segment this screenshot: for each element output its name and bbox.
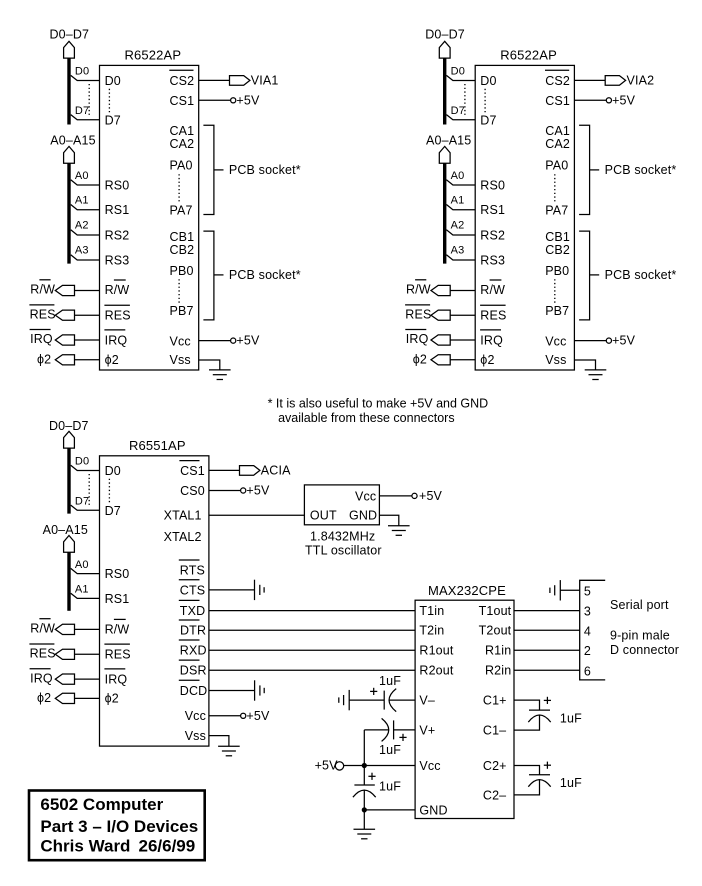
svg-text:V+: V+ bbox=[419, 723, 435, 737]
wire C2 to +5V node bbox=[364, 729, 388, 731]
svg-text:+5V: +5V bbox=[246, 709, 270, 723]
svg-text:RXD: RXD bbox=[180, 644, 207, 658]
wire A0 branch to VIA1 pin RS0 bbox=[71, 180, 100, 185]
svg-text:A0: A0 bbox=[75, 170, 89, 182]
+5V supply symbol at Vcc (VIA1) bbox=[231, 338, 236, 343]
svg-text:9-pin male: 9-pin male bbox=[610, 629, 670, 643]
wire RES tag to ACIA bbox=[75, 653, 100, 655]
svg-text:+5V: +5V bbox=[236, 334, 260, 348]
pin labels left column (ACIA) bbox=[104, 464, 130, 706]
svg-text:RS0: RS0 bbox=[105, 567, 130, 581]
bus arrow A0-A15 (VIA2) bbox=[439, 146, 450, 163]
input port IRQ (VIA2) bbox=[431, 335, 450, 345]
wire DCD to signal ground bbox=[209, 690, 255, 692]
svg-text:R1out: R1out bbox=[419, 644, 453, 658]
dotted ellipsis D1..D6 branches (VIA2) bbox=[464, 84, 466, 117]
svg-text:ACIA: ACIA bbox=[261, 464, 291, 478]
svg-text:V–: V– bbox=[419, 694, 435, 708]
capacitor C4 1uF polarized (C1+ to C1-) bbox=[529, 709, 550, 711]
wire +5V to MAX232 Vcc bbox=[344, 765, 415, 767]
svg-text:R/W: R/W bbox=[105, 623, 130, 637]
wire oscillator Vcc to +5V bbox=[379, 495, 412, 497]
svg-text:DSR: DSR bbox=[180, 664, 207, 678]
svg-text:R/W: R/W bbox=[480, 283, 505, 297]
+5V supply symbol at CS0 (ACIA) bbox=[241, 488, 246, 493]
svg-text:D0: D0 bbox=[105, 464, 121, 478]
signal ground at CTS bbox=[254, 580, 256, 600]
svg-text:RES: RES bbox=[480, 309, 506, 323]
wire A1 branch to ACIA pin RS1 bbox=[71, 593, 100, 598]
wire IRQ tag to VIA2 bbox=[450, 339, 475, 341]
svg-text:DTR: DTR bbox=[180, 624, 206, 638]
wire RXD to MAX232 R1out bbox=[209, 649, 415, 651]
signal ground at C1 bbox=[348, 690, 350, 710]
wire A3 branch to VIA1 pin RS3 bbox=[71, 255, 100, 260]
pin labels right column (VIA1) bbox=[169, 70, 194, 367]
svg-text:IRQ: IRQ bbox=[30, 332, 53, 346]
capacitor C2 1uF polarized (V+ to +5V) bbox=[393, 720, 395, 739]
wire D7 branch to VIA2 pin D7 bbox=[446, 115, 475, 120]
svg-text:+5V: +5V bbox=[315, 759, 339, 773]
svg-text:RS1: RS1 bbox=[105, 203, 130, 217]
svg-text:R2out: R2out bbox=[419, 664, 453, 678]
svg-text:D0: D0 bbox=[480, 74, 496, 88]
wire oscillator GND to ground bbox=[379, 515, 398, 526]
data bus D0-D7 thick wire (VIA1) bbox=[67, 58, 70, 124]
+5V supply symbol at oscillator bbox=[412, 493, 417, 498]
bracket PCB socket CB1-PB7 (VIA1) bbox=[203, 231, 214, 320]
svg-text:A0–A15: A0–A15 bbox=[50, 133, 95, 147]
data bus D0-D7 thick wire (VIA2) bbox=[443, 58, 446, 124]
svg-text:CS0: CS0 bbox=[180, 484, 205, 498]
svg-text:PA0: PA0 bbox=[545, 159, 568, 173]
dotted ellipsis D0..D7 inside VIA2 bbox=[484, 89, 486, 114]
wire IRQ tag to VIA1 bbox=[75, 339, 100, 341]
wire phi2 tag to ACIA bbox=[75, 697, 100, 699]
svg-text:RTS: RTS bbox=[180, 563, 205, 577]
wire GND to ground node bbox=[364, 809, 415, 811]
output port VIA1 bbox=[230, 76, 250, 86]
svg-text:PA0: PA0 bbox=[170, 159, 193, 173]
svg-text:D0: D0 bbox=[75, 456, 89, 468]
svg-text:R6522AP: R6522AP bbox=[125, 48, 182, 63]
pin labels left column (VIA1) bbox=[104, 74, 130, 367]
svg-text:3: 3 bbox=[584, 604, 591, 618]
wire phi2 tag to VIA2 bbox=[450, 359, 475, 361]
capacitor C1 1uF polarized (V- to ground) bbox=[383, 691, 385, 710]
svg-text:T1out: T1out bbox=[479, 604, 512, 618]
svg-text:MAX232CPE: MAX232CPE bbox=[428, 583, 506, 598]
polarity + of C2 bbox=[399, 736, 406, 738]
wire CS2 to VIA2 tag bbox=[574, 79, 605, 81]
svg-text:1uF: 1uF bbox=[379, 743, 401, 757]
svg-text:available from these connector: available from these connectors bbox=[278, 411, 454, 425]
wire DSR to MAX232 R2out bbox=[209, 669, 415, 671]
svg-text:A1: A1 bbox=[75, 584, 89, 596]
svg-text:CTS: CTS bbox=[180, 583, 205, 597]
wire CTS to signal ground bbox=[209, 589, 255, 591]
svg-text:ϕ2: ϕ2 bbox=[37, 691, 51, 705]
dotted ellipsis PA0..PA7 inside VIA1 bbox=[178, 174, 180, 202]
ground symbol at Vss (VIA2) bbox=[585, 369, 607, 371]
svg-text:1uF: 1uF bbox=[560, 776, 582, 790]
svg-text:PCB socket*: PCB socket* bbox=[605, 268, 677, 282]
polarity + of C5 bbox=[544, 764, 551, 766]
wire A0 branch to VIA2 pin RS0 bbox=[446, 180, 475, 185]
input port R/W (ACIA) bbox=[55, 624, 74, 634]
svg-text:ϕ2: ϕ2 bbox=[480, 353, 494, 367]
chip VIA1 R6522AP body bbox=[100, 65, 199, 370]
dotted ellipsis D1..D6 branches (ACIA) bbox=[88, 474, 90, 507]
dotted ellipsis PB0..PB7 inside VIA2 bbox=[554, 279, 556, 303]
polarity + of C4 bbox=[544, 699, 551, 701]
svg-text:CB1: CB1 bbox=[545, 230, 570, 244]
svg-text:GND: GND bbox=[349, 509, 377, 523]
svg-text:CB2: CB2 bbox=[170, 243, 195, 257]
bus arrow A0-A15 (VIA1) bbox=[64, 146, 75, 163]
+5V supply symbol at CS1 (VIA2) bbox=[606, 98, 611, 103]
ground symbol at MAX232 GND bbox=[354, 828, 376, 830]
svg-text:Vcc: Vcc bbox=[185, 709, 206, 723]
svg-text:PA7: PA7 bbox=[545, 203, 568, 217]
svg-text:C2–: C2– bbox=[483, 788, 506, 802]
svg-text:6: 6 bbox=[584, 664, 591, 678]
capacitor C3 1uF polarized (+5V to GND) bbox=[363, 766, 365, 786]
polarity + of C3 bbox=[368, 775, 375, 777]
svg-text:C1+: C1+ bbox=[483, 694, 507, 708]
svg-text:CS1: CS1 bbox=[170, 94, 195, 108]
+5V supply symbol at Vcc (VIA2) bbox=[606, 338, 611, 343]
svg-text:A2: A2 bbox=[75, 220, 89, 232]
wire CS1 to +5V (VIA2) bbox=[574, 99, 606, 101]
svg-text:Vcc: Vcc bbox=[419, 759, 440, 773]
wire D7 branch to ACIA pin D7 bbox=[71, 505, 100, 510]
wire C1 to signal ground bbox=[349, 699, 384, 701]
signal ground at serial pin 5 bbox=[559, 580, 561, 600]
wire A1 branch to VIA2 pin RS1 bbox=[446, 205, 475, 210]
output port VIA2 bbox=[605, 76, 625, 86]
dotted ellipsis PB0..PB7 inside VIA1 bbox=[178, 279, 180, 303]
svg-text:D7: D7 bbox=[451, 105, 465, 117]
wire Vcc to +5V (VIA1) bbox=[199, 340, 231, 342]
svg-text:R/W: R/W bbox=[406, 283, 431, 297]
svg-text:RS1: RS1 bbox=[105, 592, 130, 606]
svg-text:R/W: R/W bbox=[105, 283, 130, 297]
svg-text:A0: A0 bbox=[451, 170, 465, 182]
svg-text:1uF: 1uF bbox=[379, 780, 401, 794]
svg-text:1.8432MHz: 1.8432MHz bbox=[310, 529, 375, 543]
dotted ellipsis D1..D6 branches (VIA1) bbox=[88, 84, 90, 117]
wire D0 branch to ACIA pin D0 bbox=[71, 465, 100, 470]
input port RES (VIA2) bbox=[431, 310, 450, 320]
wire Vcc to +5V (VIA2) bbox=[574, 340, 606, 342]
svg-text:CS1: CS1 bbox=[545, 94, 570, 108]
svg-text:RS1: RS1 bbox=[480, 203, 505, 217]
bracket PCB socket CB1-PB7 (VIA2) bbox=[579, 231, 590, 320]
svg-text:Vcc: Vcc bbox=[545, 334, 566, 348]
svg-text:C1–: C1– bbox=[483, 723, 506, 737]
+5V supply symbol at Vcc (ACIA) bbox=[241, 713, 246, 718]
svg-text:ϕ2: ϕ2 bbox=[37, 352, 51, 366]
svg-text:CS2: CS2 bbox=[170, 74, 195, 88]
svg-text:C2+: C2+ bbox=[483, 759, 507, 773]
input port RES (VIA1) bbox=[55, 310, 74, 320]
svg-text:T2out: T2out bbox=[479, 624, 512, 638]
svg-text:XTAL2: XTAL2 bbox=[164, 530, 202, 544]
input port RES (ACIA) bbox=[55, 649, 74, 659]
svg-text:RES: RES bbox=[30, 307, 56, 321]
wire Vss to ground (VIA1) bbox=[199, 360, 220, 370]
svg-text:RES: RES bbox=[30, 647, 56, 661]
svg-text:A3: A3 bbox=[75, 245, 89, 257]
chip ACIA R6551AP body bbox=[100, 456, 209, 746]
svg-text:CA2: CA2 bbox=[545, 137, 570, 151]
svg-text:Vcc: Vcc bbox=[355, 490, 376, 504]
svg-text:RS2: RS2 bbox=[480, 229, 505, 243]
svg-text:+5V: +5V bbox=[246, 484, 270, 498]
dotted ellipsis D0..D7 inside ACIA bbox=[108, 479, 110, 504]
wire TXD to MAX232 T1in bbox=[209, 610, 415, 612]
svg-text:D7: D7 bbox=[75, 105, 89, 117]
svg-text:PCB socket*: PCB socket* bbox=[229, 268, 301, 282]
dotted ellipsis D0..D7 inside VIA1 bbox=[108, 89, 110, 114]
wire A3 branch to VIA2 pin RS3 bbox=[446, 255, 475, 260]
wire phi2 tag to VIA1 bbox=[75, 359, 100, 361]
pin labels right column (MAX232) bbox=[479, 604, 512, 802]
wire A2 branch to VIA2 pin RS2 bbox=[446, 230, 475, 235]
svg-text:RS2: RS2 bbox=[105, 229, 130, 243]
svg-text:+5V: +5V bbox=[612, 334, 636, 348]
data bus D0-D7 thick wire (ACIA) bbox=[67, 448, 70, 513]
output port ACIA bbox=[240, 466, 260, 476]
svg-text:CS1: CS1 bbox=[180, 464, 205, 478]
svg-text:CA1: CA1 bbox=[170, 124, 195, 138]
wire V- to capacitor C1 bbox=[389, 699, 415, 701]
svg-text:4: 4 bbox=[584, 624, 591, 638]
svg-text:26/6/99: 26/6/99 bbox=[139, 837, 196, 856]
wire C1+ / C1- to capacitor C4 bbox=[514, 700, 540, 710]
svg-text:Vss: Vss bbox=[545, 353, 566, 367]
ground symbol at Vss (ACIA) bbox=[218, 745, 240, 747]
input port phi2 (VIA2) bbox=[431, 355, 450, 365]
input port R/W (VIA1) bbox=[55, 285, 74, 295]
bus arrow D0-D7 (ACIA) bbox=[64, 431, 75, 448]
wire D7 branch to VIA1 pin D7 bbox=[71, 115, 100, 120]
svg-text:PB0: PB0 bbox=[545, 264, 569, 278]
svg-text:ϕ2: ϕ2 bbox=[105, 692, 119, 706]
capacitor C5 1uF polarized (C2+ to C2-) bbox=[529, 774, 550, 776]
wire Vss to ground (VIA2) bbox=[574, 360, 595, 370]
bus arrow A0-A15 (ACIA) bbox=[64, 536, 75, 553]
svg-text:D0–D7: D0–D7 bbox=[425, 27, 465, 41]
svg-text:RS0: RS0 bbox=[105, 179, 130, 193]
wire RES tag to VIA1 bbox=[75, 314, 100, 316]
pin labels left column (MAX232) bbox=[419, 604, 453, 817]
svg-text:T2in: T2in bbox=[419, 624, 444, 638]
wire RES tag to VIA2 bbox=[450, 314, 475, 316]
svg-text:PB0: PB0 bbox=[170, 264, 194, 278]
svg-text:+5V: +5V bbox=[236, 93, 260, 107]
svg-text:D7: D7 bbox=[105, 504, 121, 518]
svg-text:IRQ: IRQ bbox=[30, 671, 53, 685]
wire CS1 to ACIA tag bbox=[209, 469, 240, 471]
address bus A0-A15 thick wire (VIA1) bbox=[67, 163, 70, 263]
junction GND node bbox=[362, 807, 367, 812]
signal ground at DCD bbox=[254, 680, 256, 700]
svg-text:RES: RES bbox=[105, 309, 131, 323]
wire R/W tag to ACIA bbox=[75, 628, 100, 630]
svg-text:XTAL1: XTAL1 bbox=[164, 509, 202, 523]
svg-text:IRQ: IRQ bbox=[480, 333, 503, 347]
svg-text:PCB socket*: PCB socket* bbox=[605, 163, 677, 177]
svg-text:PB7: PB7 bbox=[545, 304, 569, 318]
svg-text:IRQ: IRQ bbox=[105, 333, 128, 347]
svg-text:CB2: CB2 bbox=[545, 243, 570, 257]
input port phi2 (ACIA) bbox=[55, 693, 74, 703]
wire D0 branch to VIA2 pin D0 bbox=[446, 75, 475, 80]
svg-text:D7: D7 bbox=[105, 113, 121, 127]
svg-text:RES: RES bbox=[105, 648, 131, 662]
svg-text:R2in: R2in bbox=[485, 664, 511, 678]
wire Vcc to +5V (ACIA) bbox=[209, 715, 241, 717]
svg-text:5: 5 bbox=[584, 585, 591, 599]
svg-text:IRQ: IRQ bbox=[105, 672, 128, 686]
svg-text:DCD: DCD bbox=[180, 684, 208, 698]
svg-text:IRQ: IRQ bbox=[406, 332, 429, 346]
svg-text:Vss: Vss bbox=[185, 729, 206, 743]
svg-text:CB1: CB1 bbox=[170, 230, 195, 244]
wire V+ to capacitor C2 bbox=[394, 729, 416, 731]
wire CS2 to VIA1 tag bbox=[199, 79, 230, 81]
bus arrow D0-D7 (VIA1) bbox=[64, 41, 75, 58]
+5V supply symbol at CS1 (VIA1) bbox=[231, 98, 236, 103]
wire A1 branch to VIA1 pin RS1 bbox=[71, 205, 100, 210]
svg-text:RES: RES bbox=[405, 307, 431, 321]
svg-text:PCB socket*: PCB socket* bbox=[229, 163, 301, 177]
wire D0 branch to VIA1 pin D0 bbox=[71, 75, 100, 80]
svg-text:A0: A0 bbox=[75, 559, 89, 571]
wire CS1 to +5V (VIA1) bbox=[199, 99, 231, 101]
serial connector J1 bracket bbox=[580, 580, 606, 680]
wire A2 branch to VIA1 pin RS2 bbox=[71, 230, 100, 235]
svg-text:GND: GND bbox=[419, 803, 447, 817]
svg-text:RS3: RS3 bbox=[105, 253, 130, 267]
wire R/W tag to VIA2 bbox=[450, 290, 475, 292]
wire A0 branch to ACIA pin RS0 bbox=[71, 568, 100, 573]
svg-text:A1: A1 bbox=[75, 194, 89, 206]
wire R2in to serial pin 6 bbox=[514, 669, 580, 671]
svg-text:D0: D0 bbox=[75, 66, 89, 78]
svg-text:Part 3 – I/O Devices: Part 3 – I/O Devices bbox=[40, 817, 198, 836]
svg-text:TXD: TXD bbox=[180, 604, 205, 618]
ground symbol at oscillator bbox=[388, 525, 410, 527]
oscillator X1 body bbox=[304, 485, 379, 525]
svg-text:A1: A1 bbox=[451, 194, 465, 206]
svg-text:TTL oscillator: TTL oscillator bbox=[305, 543, 382, 557]
svg-text:T1in: T1in bbox=[419, 604, 444, 618]
svg-text:PB7: PB7 bbox=[170, 304, 194, 318]
wire R1in to serial pin 2 bbox=[514, 649, 580, 651]
wire IRQ tag to ACIA bbox=[75, 678, 100, 680]
svg-text:CS2: CS2 bbox=[545, 74, 570, 88]
svg-text:R/W: R/W bbox=[30, 622, 55, 636]
svg-text:1uF: 1uF bbox=[379, 674, 401, 688]
svg-text:R1in: R1in bbox=[485, 644, 511, 658]
oscillator pin labels bbox=[310, 490, 377, 523]
svg-text:R/W: R/W bbox=[30, 283, 55, 297]
svg-text:A2: A2 bbox=[451, 220, 465, 232]
+5V terminal circle bbox=[335, 762, 343, 770]
wire ground node down bbox=[363, 810, 365, 829]
title box frame bbox=[29, 791, 205, 861]
svg-text:Chris Ward: Chris Ward bbox=[40, 837, 130, 856]
svg-text:CA1: CA1 bbox=[545, 124, 570, 138]
svg-text:Vcc: Vcc bbox=[170, 334, 191, 348]
wire C2+ / C2- to capacitor C5 bbox=[514, 766, 540, 775]
svg-text:VIA1: VIA1 bbox=[251, 74, 279, 88]
svg-text:+5V: +5V bbox=[419, 489, 443, 503]
wire T1out to serial pin 3 bbox=[514, 610, 580, 612]
ground symbol at Vss (VIA1) bbox=[209, 369, 231, 371]
wire CS0 to +5V (ACIA) bbox=[209, 490, 241, 492]
wire Vss to ground (ACIA) bbox=[209, 736, 229, 747]
svg-text:PA7: PA7 bbox=[170, 203, 193, 217]
svg-text:D0: D0 bbox=[105, 74, 121, 88]
svg-text:A0–A15: A0–A15 bbox=[43, 523, 88, 537]
wire DTR to MAX232 T2in bbox=[209, 629, 415, 631]
svg-text:Vss: Vss bbox=[170, 353, 191, 367]
bracket PCB socket CA1-PA7 (VIA2) bbox=[579, 125, 590, 214]
address bus A0-A15 thick wire (ACIA) bbox=[67, 552, 70, 611]
svg-text:OUT: OUT bbox=[310, 509, 337, 523]
input port R/W (VIA2) bbox=[431, 285, 450, 295]
junction +5V node bbox=[362, 763, 367, 768]
svg-text:D connector: D connector bbox=[610, 643, 679, 657]
svg-text:1uF: 1uF bbox=[560, 711, 582, 725]
svg-text:R6522AP: R6522AP bbox=[500, 48, 557, 63]
chip MAX232CPE body bbox=[415, 600, 514, 818]
svg-text:D0–D7: D0–D7 bbox=[50, 27, 90, 41]
chip VIA2 R6522AP body bbox=[475, 65, 574, 370]
svg-text:D7: D7 bbox=[480, 113, 496, 127]
svg-text:* It is also useful to make +5: * It is also useful to make +5V and GND bbox=[268, 397, 489, 411]
input port IRQ (ACIA) bbox=[55, 674, 74, 684]
svg-text:D0: D0 bbox=[451, 66, 465, 78]
svg-text:A0–A15: A0–A15 bbox=[426, 133, 471, 147]
svg-text:6502 Computer: 6502 Computer bbox=[40, 795, 163, 814]
wire XTAL1 to oscillator OUT bbox=[209, 514, 305, 516]
svg-text:A3: A3 bbox=[451, 245, 465, 257]
bus arrow D0-D7 (VIA2) bbox=[439, 41, 450, 58]
svg-text:ϕ2: ϕ2 bbox=[413, 352, 427, 366]
pin labels left column (VIA2) bbox=[480, 74, 506, 367]
svg-text:Serial port: Serial port bbox=[610, 598, 669, 612]
polarity + of C1 bbox=[370, 690, 377, 692]
svg-text:D7: D7 bbox=[75, 495, 89, 507]
svg-text:RS0: RS0 bbox=[480, 179, 505, 193]
wire R/W tag to VIA1 bbox=[75, 290, 100, 292]
pin labels right column (VIA2) bbox=[545, 70, 570, 367]
svg-text:RS3: RS3 bbox=[480, 253, 505, 267]
input port phi2 (VIA1) bbox=[55, 355, 74, 365]
svg-text:2: 2 bbox=[584, 644, 591, 658]
wire serial pin 5 to signal ground bbox=[560, 589, 579, 591]
svg-text:CA2: CA2 bbox=[170, 137, 195, 151]
svg-text:VIA2: VIA2 bbox=[627, 74, 655, 88]
svg-text:R6551AP: R6551AP bbox=[129, 438, 186, 453]
bracket PCB socket CA1-PA7 (VIA1) bbox=[203, 125, 214, 214]
input port IRQ (VIA1) bbox=[55, 335, 74, 345]
